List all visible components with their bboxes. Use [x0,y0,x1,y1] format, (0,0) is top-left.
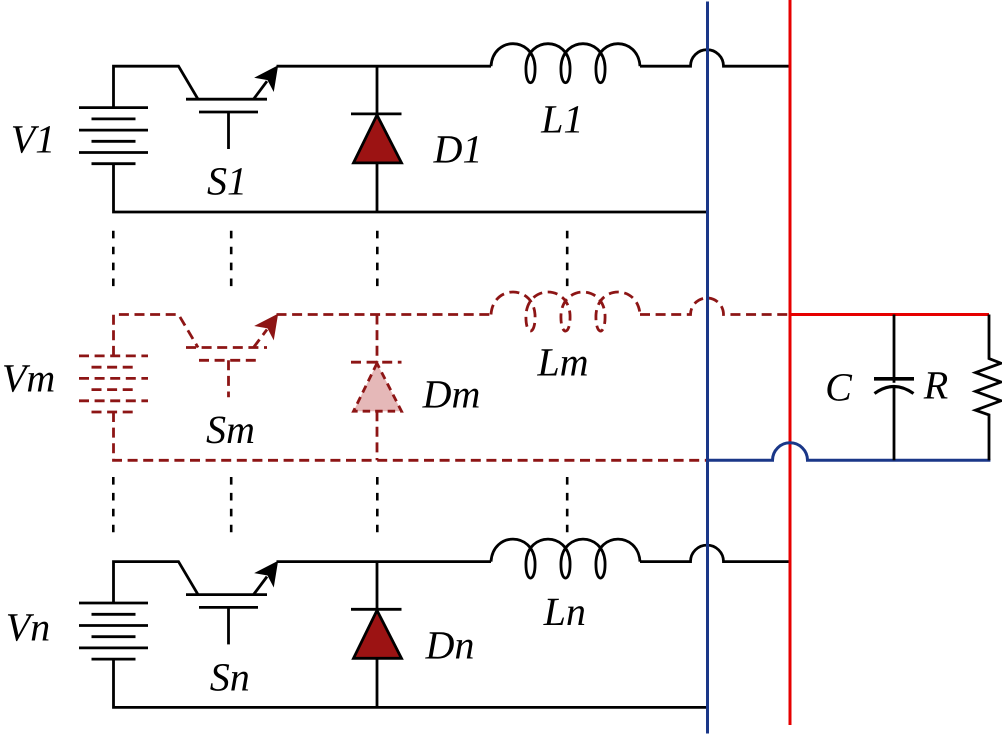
wire Vm+ to Sm [114,315,199,356]
label C [827,374,852,401]
label S1 [207,168,242,195]
wire L1 to red bus (hop over blue bus) [640,50,790,66]
continuation dashes (lower) [113,477,567,532]
wire Sn to Ln [277,560,492,563]
resistor R [976,315,1002,461]
transistor switch Sm [186,315,278,398]
label Dm [422,381,479,407]
inductor L1 [491,44,640,83]
wire Ln to red bus (hop over blue bus) [640,545,790,562]
label Dn [425,632,473,658]
wire Lm to red bus (hop over blue bus) [640,298,790,315]
continuation dashes (upper) [113,231,567,286]
diode Dn [351,562,402,708]
transistor switch S1 [186,66,278,149]
label D1 [433,136,478,162]
wire Vm- to blue bus (bottom return) [114,412,708,460]
label L1 [541,106,579,132]
wire V1- to blue bus (bottom return) [114,164,708,212]
transistor switch Sn [186,562,278,645]
label R [924,372,948,398]
diode Dm [351,315,402,461]
label Ln [543,599,584,625]
inductor Lm [491,292,640,331]
wire Vn+ to Sn [114,562,199,603]
battery Vm [79,356,148,412]
wire Vn- to blue bus (bottom return) [114,659,708,707]
wire S1 to L1 [277,65,492,68]
battery Vn [79,603,148,659]
label Sm [207,417,254,444]
inductor Ln [491,539,640,578]
wire Sm to Lm [277,313,492,316]
diode D1 [351,66,402,212]
blue negative bus (vertical) [706,2,709,734]
label Sn [210,664,248,691]
wire blue bus to load bottom (hop over red bus) [708,443,991,461]
wire red bus to load (top of output) [790,313,989,316]
label Vm [4,365,54,392]
wire V1+ to S1 [114,66,199,107]
label V1 [13,126,51,153]
battery V1 [79,108,148,164]
label Lm [537,349,587,375]
capacitor C [874,315,914,461]
red positive bus (vertical) [789,0,792,725]
label Vn [8,614,49,641]
